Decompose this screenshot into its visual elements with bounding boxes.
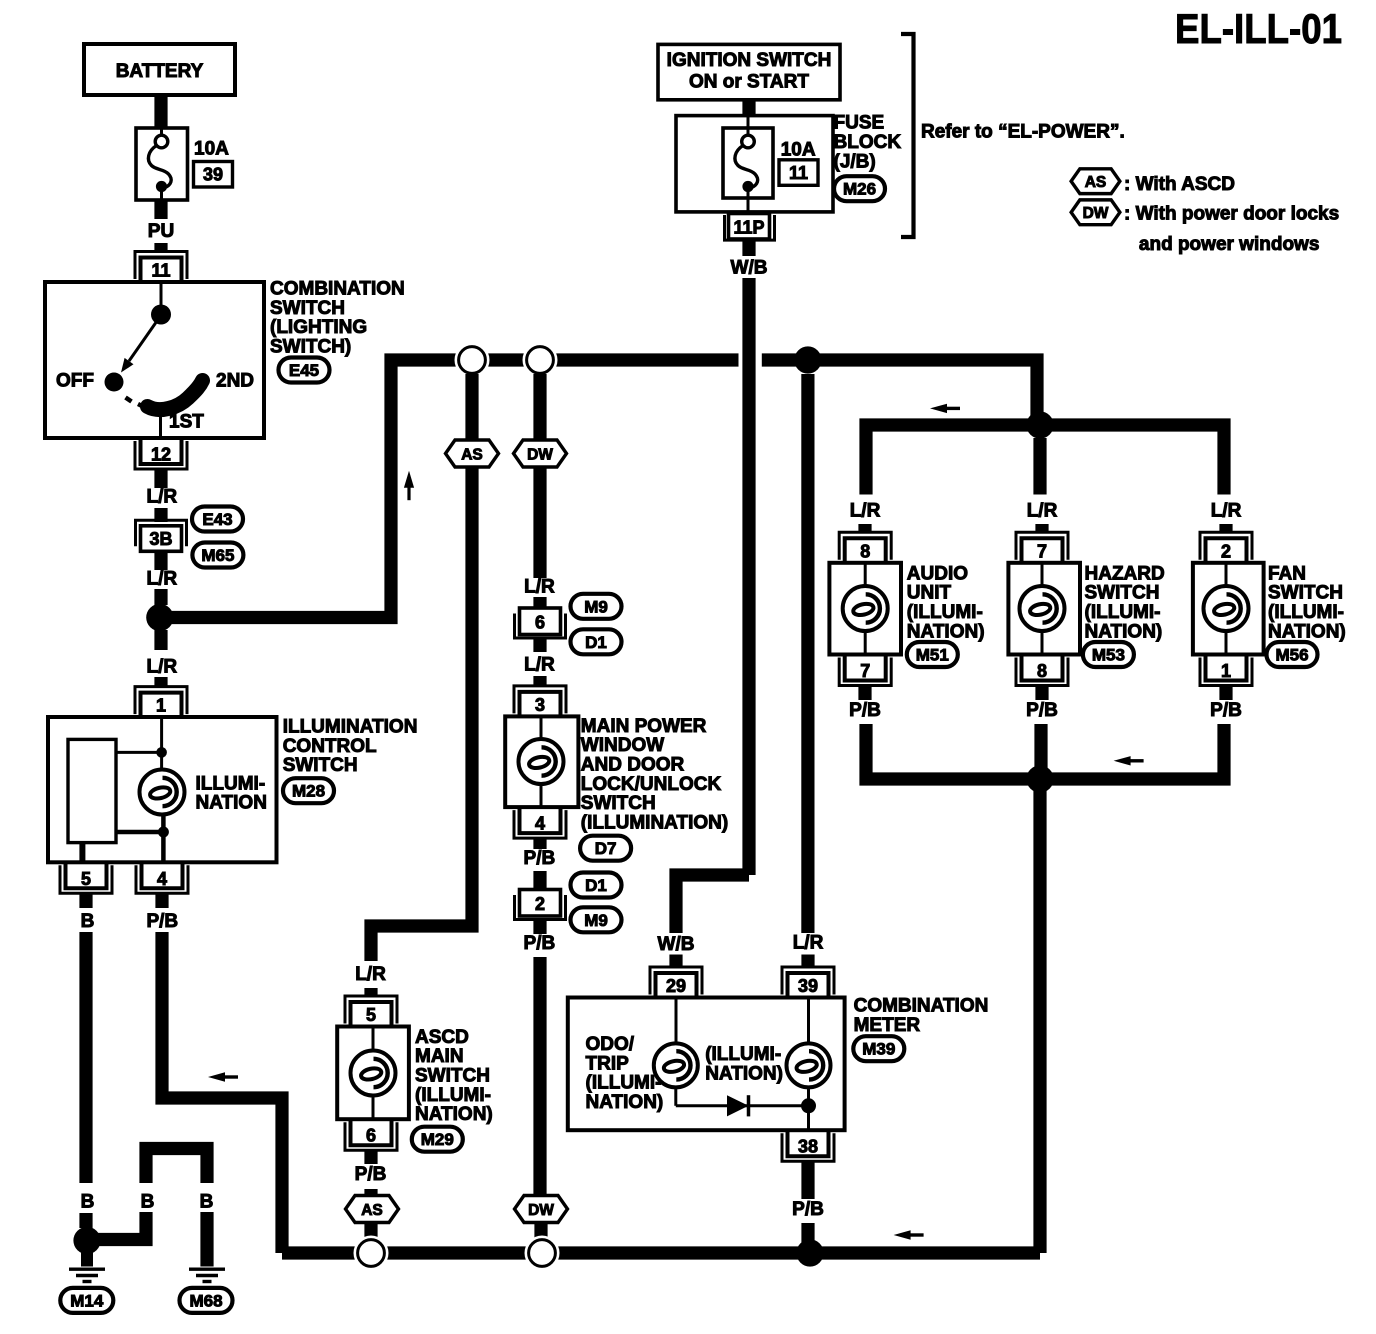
connector 5 bbox=[60, 865, 112, 893]
svg-text:L/R: L/R bbox=[355, 964, 386, 985]
svg-text:SWITCH: SWITCH bbox=[1268, 583, 1343, 604]
svg-text:D1: D1 bbox=[585, 876, 607, 895]
svg-text:BLOCK: BLOCK bbox=[834, 132, 902, 153]
svg-text:Refer to “EL-POWER”.: Refer to “EL-POWER”. bbox=[921, 122, 1125, 143]
ASCD main switch M29 bbox=[337, 1027, 409, 1120]
wire L/R from bus to meter bbox=[801, 374, 814, 933]
svg-text:12: 12 bbox=[151, 445, 171, 465]
connector 38 combination meter bbox=[782, 1133, 834, 1161]
lamp meter illumination bbox=[787, 1043, 831, 1087]
svg-text:ON or START: ON or START bbox=[689, 72, 809, 93]
P/B collection bus bbox=[866, 724, 1224, 779]
arrow on L/R distribution bus bbox=[930, 404, 960, 413]
svg-text:M9: M9 bbox=[584, 597, 608, 616]
main bus right segment bbox=[762, 360, 1037, 425]
svg-text:NATION): NATION) bbox=[705, 1063, 783, 1084]
fuse 10A 11 bbox=[723, 128, 773, 198]
lamp odo/trip illumination bbox=[654, 1043, 698, 1087]
connector id E45 bbox=[279, 358, 330, 383]
svg-text:M56: M56 bbox=[1275, 646, 1308, 665]
ground M14 bbox=[69, 1269, 105, 1281]
svg-text:HAZARD: HAZARD bbox=[1085, 563, 1165, 584]
bus tap circle DW bottom bbox=[525, 1236, 560, 1271]
wire P/B below meter bbox=[801, 1162, 814, 1200]
wire AS branch from bus bbox=[465, 374, 478, 441]
svg-text:P/B: P/B bbox=[1026, 700, 1058, 721]
svg-text:8: 8 bbox=[1037, 661, 1047, 681]
svg-text:4: 4 bbox=[535, 814, 545, 834]
svg-text:1: 1 bbox=[156, 696, 166, 716]
wire W/B down to meter bbox=[742, 278, 755, 875]
wire L/R below 3B bbox=[154, 552, 167, 571]
option symbol DW lower bbox=[515, 1196, 568, 1223]
lamp main power window switch illumination bbox=[519, 739, 564, 784]
combination meter M39 bbox=[568, 998, 845, 1131]
svg-text:1: 1 bbox=[1221, 661, 1231, 681]
svg-text:M51: M51 bbox=[916, 646, 949, 665]
svg-text:L/R: L/R bbox=[850, 501, 881, 522]
connector 11 combination switch bbox=[135, 252, 187, 280]
connector 29 combination meter bbox=[650, 967, 702, 995]
svg-text:SWITCH): SWITCH) bbox=[270, 337, 351, 358]
bus tap circle DW bbox=[523, 343, 558, 378]
svg-text:L/R: L/R bbox=[146, 486, 177, 507]
svg-text:: With power door locks: : With power door locks bbox=[1124, 204, 1339, 225]
svg-text:6: 6 bbox=[535, 613, 545, 633]
svg-text:2: 2 bbox=[535, 894, 545, 914]
wire DW branch from bus bbox=[533, 374, 546, 441]
wire L/R feed to main bus bbox=[161, 360, 739, 618]
svg-text:and power windows: and power windows bbox=[1139, 234, 1320, 255]
svg-text:M28: M28 bbox=[292, 782, 325, 801]
svg-text:B: B bbox=[200, 1192, 214, 1213]
svg-text:M29: M29 bbox=[421, 1130, 454, 1149]
bus tap circle AS bbox=[455, 343, 490, 378]
svg-text:(ILLUMI-: (ILLUMI- bbox=[1268, 602, 1344, 623]
svg-text:P/B: P/B bbox=[792, 1199, 824, 1220]
legend AS symbol bbox=[1071, 169, 1120, 194]
wire P/B hazard switch bbox=[1035, 686, 1048, 700]
ignition switch bbox=[658, 44, 840, 99]
svg-text:MAIN: MAIN bbox=[415, 1046, 464, 1067]
wire P/B collection to bottom bus bbox=[1033, 779, 1046, 1253]
svg-text:L/R: L/R bbox=[1027, 501, 1058, 522]
diode bbox=[727, 1095, 749, 1116]
svg-text:7: 7 bbox=[1037, 541, 1047, 561]
junction node P/B collection bbox=[1026, 765, 1053, 792]
svg-text:6: 6 bbox=[366, 1126, 376, 1146]
hazard switch M53 bbox=[1008, 563, 1080, 655]
lamp hazard switch illumination bbox=[1020, 586, 1065, 631]
svg-text:MAIN POWER: MAIN POWER bbox=[581, 716, 707, 737]
wire B below connector 5 bbox=[79, 894, 92, 909]
wire P/B audio unit bbox=[858, 686, 871, 700]
svg-text:B: B bbox=[141, 1192, 155, 1213]
svg-text:NATION): NATION) bbox=[586, 1092, 664, 1113]
connector id M39 bbox=[853, 1036, 904, 1061]
wire P/B below connector 4 bbox=[155, 894, 168, 909]
svg-text:NATION): NATION) bbox=[1268, 621, 1346, 642]
svg-text:(LIGHTING: (LIGHTING bbox=[270, 317, 367, 338]
svg-text:(ILLUMI-: (ILLUMI- bbox=[415, 1085, 491, 1106]
L/R distribution bus bbox=[866, 425, 1224, 495]
legend DW symbol bbox=[1071, 200, 1120, 225]
svg-text:SWITCH: SWITCH bbox=[415, 1066, 490, 1087]
connector 2 fan switch bbox=[1200, 532, 1252, 560]
connector 1 illumination control switch bbox=[135, 687, 187, 715]
junction node L/R hazard bbox=[1026, 411, 1053, 438]
svg-text:M65: M65 bbox=[201, 546, 234, 565]
svg-text:P/B: P/B bbox=[524, 933, 556, 954]
svg-text:E43: E43 bbox=[202, 510, 232, 529]
svg-text:P/B: P/B bbox=[1210, 700, 1242, 721]
svg-text:P/B: P/B bbox=[849, 700, 881, 721]
svg-text:2ND: 2ND bbox=[216, 371, 254, 392]
svg-text:WINDOW: WINDOW bbox=[581, 735, 664, 756]
illumination control switch M28 bbox=[48, 717, 277, 862]
svg-text:NATION): NATION) bbox=[907, 621, 985, 642]
connector id D7 bbox=[580, 836, 631, 861]
lamp fan switch illumination bbox=[1204, 586, 1249, 631]
wire W/B below 11P bbox=[742, 242, 755, 257]
svg-text:(ILLUMI-: (ILLUMI- bbox=[705, 1044, 781, 1065]
svg-text:IGNITION SWITCH: IGNITION SWITCH bbox=[667, 50, 832, 71]
battery bbox=[84, 44, 235, 95]
wire L/R above connector 1 bbox=[154, 630, 167, 650]
svg-text:M14: M14 bbox=[70, 1291, 104, 1310]
svg-text:L/R: L/R bbox=[793, 933, 824, 954]
svg-text:AS: AS bbox=[1085, 174, 1107, 191]
svg-text:M53: M53 bbox=[1092, 646, 1125, 665]
svg-text:D1: D1 bbox=[585, 633, 607, 652]
junction node B ground bbox=[73, 1227, 100, 1254]
svg-text:TRIP: TRIP bbox=[586, 1053, 630, 1074]
svg-text:5: 5 bbox=[366, 1005, 376, 1025]
combination switch (lighting switch) E45 bbox=[45, 282, 264, 438]
wire L/R below 12 bbox=[154, 470, 167, 489]
svg-text:P/B: P/B bbox=[355, 1164, 387, 1185]
connector 7 hazard switch bbox=[1016, 532, 1068, 560]
svg-text:11: 11 bbox=[151, 261, 170, 281]
svg-text:CONTROL: CONTROL bbox=[283, 736, 377, 757]
wire L/R above connector 3 bbox=[533, 639, 546, 652]
svg-text:FUSE: FUSE bbox=[834, 113, 885, 134]
svg-text:3B: 3B bbox=[149, 529, 172, 549]
svg-text:L/R: L/R bbox=[146, 569, 177, 590]
wire P/B below connector 4 bbox=[533, 839, 546, 850]
contact OFF bbox=[105, 373, 124, 392]
connector id M9 lower bbox=[571, 907, 622, 932]
svg-text:NATION): NATION) bbox=[415, 1104, 493, 1125]
svg-text:7: 7 bbox=[860, 661, 870, 681]
junction node meter bbox=[801, 1098, 816, 1113]
connector 4 main power window switch bbox=[514, 810, 566, 838]
ground M68 bbox=[189, 1269, 225, 1281]
wire P/B below ASCD bbox=[364, 1151, 377, 1165]
svg-text:PU: PU bbox=[148, 221, 174, 242]
svg-text:BATTERY: BATTERY bbox=[116, 61, 204, 82]
svg-text:NATION): NATION) bbox=[1085, 621, 1163, 642]
svg-text:10A: 10A bbox=[194, 139, 229, 160]
svg-text:11P: 11P bbox=[733, 218, 764, 238]
arrow on P/B jog bbox=[208, 1072, 238, 1081]
svg-text:ILLUMINATION: ILLUMINATION bbox=[283, 717, 418, 738]
svg-text:DW: DW bbox=[527, 446, 553, 463]
arrow on P/B collection bus bbox=[1114, 756, 1144, 765]
svg-text:P/B: P/B bbox=[146, 911, 178, 932]
svg-text:B: B bbox=[81, 1192, 95, 1213]
svg-text:1ST: 1ST bbox=[169, 412, 204, 433]
svg-text:L/R: L/R bbox=[1211, 501, 1242, 522]
svg-text:(J/B): (J/B) bbox=[834, 151, 876, 172]
svg-text:FAN: FAN bbox=[1268, 563, 1306, 584]
wire battery to fuse bbox=[154, 93, 167, 132]
svg-text:D7: D7 bbox=[595, 839, 617, 858]
connector id D1 lower bbox=[571, 873, 622, 898]
svg-text:L/R: L/R bbox=[524, 577, 555, 598]
svg-text:SWITCH: SWITCH bbox=[283, 755, 358, 776]
svg-text:M39: M39 bbox=[862, 1040, 895, 1059]
svg-text:AS: AS bbox=[461, 446, 483, 463]
svg-text:E45: E45 bbox=[289, 361, 319, 380]
connector 1 fan switch bbox=[1200, 658, 1252, 686]
junction node L/R bbox=[146, 604, 173, 631]
connector 5 ASCD main switch bbox=[345, 996, 397, 1024]
connector id M51 bbox=[907, 642, 958, 667]
svg-text:3: 3 bbox=[535, 695, 545, 715]
svg-text:10A: 10A bbox=[781, 140, 816, 161]
connector 3 main power window switch bbox=[514, 686, 566, 714]
svg-text:W/B: W/B bbox=[731, 258, 768, 279]
svg-text:EL-ILL-01: EL-ILL-01 bbox=[1175, 5, 1342, 52]
svg-text:(ILLUMINATION): (ILLUMINATION) bbox=[581, 812, 728, 833]
svg-text:5: 5 bbox=[81, 869, 91, 889]
svg-text:8: 8 bbox=[860, 541, 870, 561]
svg-text:P/B: P/B bbox=[524, 848, 556, 869]
svg-text:SWITCH: SWITCH bbox=[581, 793, 656, 814]
svg-text:: With ASCD: : With ASCD bbox=[1124, 174, 1235, 195]
svg-text:M68: M68 bbox=[189, 1291, 222, 1310]
lamp ILLUMINATION bbox=[140, 770, 185, 815]
svg-text:M26: M26 bbox=[843, 180, 876, 199]
connector id M29 bbox=[412, 1127, 463, 1152]
svg-text:M9: M9 bbox=[584, 911, 608, 930]
svg-text:39: 39 bbox=[798, 976, 818, 996]
connector 7 audio unit bbox=[839, 658, 891, 686]
svg-text:39: 39 bbox=[203, 165, 223, 185]
connector 4 bbox=[136, 865, 188, 893]
wire P/B below connector 2 bbox=[533, 920, 546, 934]
bottom P/B bus bbox=[282, 1246, 1040, 1259]
svg-text:DW: DW bbox=[1083, 205, 1109, 222]
svg-text:W/B: W/B bbox=[658, 934, 695, 955]
svg-text:UNIT: UNIT bbox=[907, 583, 952, 604]
svg-text:B: B bbox=[81, 911, 95, 932]
svg-text:SWITCH: SWITCH bbox=[1085, 583, 1160, 604]
connector 3B E43/M65 bbox=[136, 520, 187, 546]
connector 39 combination meter bbox=[782, 967, 834, 995]
main power window and door lock/unlock switch D7 bbox=[505, 716, 578, 807]
svg-text:2: 2 bbox=[1221, 541, 1231, 561]
fuse 10A 39 bbox=[136, 128, 188, 200]
svg-text:SWITCH: SWITCH bbox=[270, 298, 345, 319]
rheostat element bbox=[68, 739, 116, 842]
connector id M26 bbox=[834, 176, 885, 201]
svg-text:AUDIO: AUDIO bbox=[907, 563, 968, 584]
svg-text:OFF: OFF bbox=[56, 371, 94, 392]
svg-text:NATION: NATION bbox=[196, 793, 267, 814]
connector id M53 bbox=[1083, 642, 1134, 667]
wire ignition to fuse block bbox=[742, 99, 755, 118]
svg-text:L/R: L/R bbox=[146, 656, 177, 677]
connector 6 M9/D1 bbox=[515, 614, 566, 639]
svg-text:(ILLUMI-: (ILLUMI- bbox=[586, 1073, 662, 1094]
svg-text:COMBINATION: COMBINATION bbox=[270, 279, 405, 300]
svg-text:29: 29 bbox=[666, 976, 686, 996]
connector id M28 bbox=[283, 778, 334, 803]
audio unit M51 bbox=[829, 563, 901, 655]
connector 8 hazard switch bbox=[1016, 658, 1068, 686]
connector 6 ASCD bbox=[345, 1122, 397, 1150]
svg-text:LOCK/UNLOCK: LOCK/UNLOCK bbox=[581, 774, 722, 795]
connector id E43 bbox=[192, 507, 243, 532]
svg-text:38: 38 bbox=[798, 1137, 818, 1157]
option symbol AS bbox=[446, 440, 499, 467]
connector id D1 bbox=[571, 629, 622, 654]
connector 12 bbox=[135, 441, 187, 469]
svg-text:ASCD: ASCD bbox=[415, 1027, 469, 1048]
fuse block J/B M26 bbox=[676, 116, 833, 212]
option symbol DW bbox=[514, 440, 567, 467]
svg-text:(ILLUMI-: (ILLUMI- bbox=[1085, 602, 1161, 623]
connector id M65 bbox=[192, 543, 243, 568]
svg-text:ILLUMI-: ILLUMI- bbox=[196, 773, 266, 794]
svg-text:COMBINATION: COMBINATION bbox=[854, 996, 989, 1017]
lamp ASCD illumination bbox=[351, 1051, 396, 1096]
arrow up to bus bbox=[404, 471, 414, 501]
bus tap circle AS bottom bbox=[354, 1236, 389, 1271]
connector 8 audio unit bbox=[839, 532, 891, 560]
svg-text:(ILLUMI-: (ILLUMI- bbox=[907, 602, 983, 623]
svg-text:DW: DW bbox=[528, 1202, 554, 1219]
wire PU bbox=[154, 200, 167, 219]
connector id M9 bbox=[571, 594, 622, 619]
svg-text:AS: AS bbox=[361, 1202, 383, 1219]
svg-text:11: 11 bbox=[789, 163, 808, 183]
dashed travel arc bbox=[126, 398, 132, 402]
junction node main bus L/R bbox=[794, 346, 821, 373]
svg-text:4: 4 bbox=[157, 869, 167, 889]
lamp audio unit illumination bbox=[843, 586, 888, 631]
connector id M56 bbox=[1267, 642, 1318, 667]
bracket refer to EL-POWER bbox=[901, 34, 914, 237]
junction node bottom bus bbox=[796, 1239, 823, 1266]
svg-text:ODO/: ODO/ bbox=[586, 1034, 635, 1055]
option symbol AS lower bbox=[346, 1196, 399, 1223]
connector 11P bbox=[725, 215, 775, 240]
svg-text:METER: METER bbox=[854, 1015, 921, 1036]
arrow on bottom bus bbox=[894, 1230, 924, 1239]
wire B link to M68 bbox=[92, 1212, 146, 1240]
wire P/B fan switch bbox=[1219, 686, 1232, 700]
fan switch M56 bbox=[1193, 563, 1264, 655]
svg-text:L/R: L/R bbox=[524, 655, 555, 676]
svg-text:AND DOOR: AND DOOR bbox=[581, 755, 685, 776]
connector 2 D1/M9 bbox=[515, 895, 566, 920]
wiper arc 1ST-2ND bbox=[148, 381, 203, 410]
